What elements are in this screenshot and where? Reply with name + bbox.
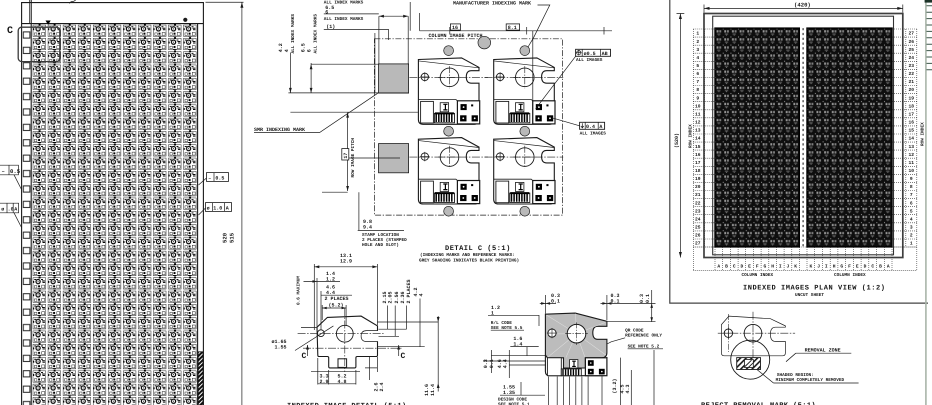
indexing circles column2 xyxy=(520,46,530,56)
svg-text:21: 21 xyxy=(695,192,701,198)
svg-text:16: 16 xyxy=(452,25,458,31)
svg-text:I: I xyxy=(779,264,782,270)
svg-text:3: 3 xyxy=(696,47,699,53)
right extension lines xyxy=(378,322,439,347)
square hole in tab xyxy=(338,359,347,368)
svg-text:8: 8 xyxy=(910,184,913,190)
dim (520) xyxy=(677,14,685,258)
svg-text:(520): (520) xyxy=(674,133,680,148)
I-box grey dev xyxy=(570,360,578,368)
svg-text:4: 4 xyxy=(910,216,913,222)
device image r2c1 xyxy=(409,138,488,204)
svg-text:11: 11 xyxy=(695,112,701,118)
inner sheet rect xyxy=(713,16,894,255)
center gap dashes xyxy=(802,28,804,247)
svg-text:0.6 MAXIMUM: 0.6 MAXIMUM xyxy=(297,276,302,305)
bottom dims xyxy=(318,357,378,385)
svg-text:9: 9 xyxy=(696,95,699,101)
small circle xyxy=(318,330,325,337)
white crease lines xyxy=(547,314,606,358)
device image r2c2 xyxy=(485,138,564,204)
svg-text:H: H xyxy=(833,264,836,270)
svg-text:7: 7 xyxy=(910,192,913,198)
svg-text:F: F xyxy=(756,264,759,270)
device outline lower part xyxy=(545,355,607,376)
svg-text:2.05: 2.05 xyxy=(387,291,393,303)
svg-text:0.1: 0.1 xyxy=(489,359,495,368)
svg-text:B: B xyxy=(725,264,728,270)
column letters right xyxy=(810,264,890,270)
detail C dash-dot border xyxy=(374,39,562,215)
svg-text:9.4: 9.4 xyxy=(363,225,372,231)
svg-text:25: 25 xyxy=(909,47,915,53)
bottom-left notch grey dev xyxy=(547,358,561,376)
svg-text:21: 21 xyxy=(909,79,915,85)
svg-text:23: 23 xyxy=(909,63,915,69)
adjacent sheet header bar xyxy=(925,0,932,3)
svg-text:24: 24 xyxy=(909,55,915,61)
svg-text:DETAIL C (5:1): DETAIL C (5:1) xyxy=(445,244,511,253)
removal centerlines xyxy=(718,332,795,334)
svg-text:4: 4 xyxy=(418,293,424,296)
adjacent sheet edge line xyxy=(925,0,927,405)
array top edge xyxy=(22,23,204,25)
svg-text:26: 26 xyxy=(909,39,915,45)
svg-text:0.5: 0.5 xyxy=(10,168,21,175)
svg-text:5: 5 xyxy=(910,208,913,214)
svg-text:16: 16 xyxy=(909,120,915,126)
removal small circle xyxy=(724,329,732,337)
svg-text:20: 20 xyxy=(909,87,915,93)
svg-text:17: 17 xyxy=(909,112,915,118)
svg-text:8: 8 xyxy=(696,87,699,93)
QR block grey dev xyxy=(585,358,607,376)
svg-text:10: 10 xyxy=(695,103,701,109)
svg-text:K: K xyxy=(794,264,797,270)
svg-text:H: H xyxy=(771,264,774,270)
dim 520/515 xyxy=(206,1,244,3)
leader diameter 1.65 xyxy=(295,326,333,351)
SMR indexing mark square 2 xyxy=(379,144,409,173)
stamp location dims xyxy=(358,192,360,230)
row index cells left xyxy=(693,29,715,247)
svg-text:22: 22 xyxy=(695,200,701,206)
svg-text:0.1: 0.1 xyxy=(645,294,651,303)
svg-text:ROW INDEX: ROW INDEX xyxy=(689,124,694,148)
row index cells right xyxy=(892,29,917,247)
svg-text:12: 12 xyxy=(695,120,701,126)
image outline drawing body xyxy=(317,316,378,368)
svg-text:A: A xyxy=(717,264,720,270)
svg-text:R/L CODE: R/L CODE xyxy=(491,320,512,326)
svg-text:2 PLACES: 2 PLACES xyxy=(325,296,349,302)
hatched shaded region xyxy=(737,358,761,370)
column index cells bottom xyxy=(693,247,917,270)
svg-text:18: 18 xyxy=(909,103,915,109)
svg-text:ROW IMAGE PITCH: ROW IMAGE PITCH xyxy=(351,138,356,178)
feature frame right side -0.5 xyxy=(199,173,229,185)
svg-text:23: 23 xyxy=(695,208,701,214)
svg-text:14: 14 xyxy=(909,136,915,142)
svg-text:19: 19 xyxy=(909,95,915,101)
svg-text:ø: ø xyxy=(207,206,210,212)
svg-text:D: D xyxy=(741,264,744,270)
svg-text:E: E xyxy=(856,264,859,270)
indexing circles column1 xyxy=(444,46,454,56)
svg-text:6: 6 xyxy=(910,200,913,206)
centerline horizontal xyxy=(298,332,384,334)
svg-text:MANUFACTURER INDEXING MARK: MANUFACTURER INDEXING MARK xyxy=(453,0,531,6)
manufacturer indexing mark circle xyxy=(478,36,491,49)
svg-text:.0: .0 xyxy=(8,207,14,213)
resist removal hatched zone on right rail xyxy=(198,352,203,405)
svg-text:J: J xyxy=(787,264,790,270)
svg-text:INDEXED IMAGES PLAN VIEW (1:2): INDEXED IMAGES PLAN VIEW (1:2) xyxy=(743,284,886,293)
svg-text:D: D xyxy=(864,264,867,270)
stamp mark top-right xyxy=(183,18,187,22)
lead-frame sheet outline xyxy=(22,3,204,405)
svg-text:C: C xyxy=(302,352,307,361)
svg-text:C: C xyxy=(7,26,13,37)
svg-text:11: 11 xyxy=(909,160,915,166)
svg-text:24: 24 xyxy=(695,216,701,222)
svg-text:16: 16 xyxy=(695,152,701,158)
feature frame left edge 0.5 xyxy=(0,165,22,189)
svg-text:INDEXED IMAGE DETAIL (5:1): INDEXED IMAGE DETAIL (5:1) xyxy=(287,402,407,405)
svg-text:4.3: 4.3 xyxy=(625,384,631,393)
right rail inner line xyxy=(197,24,199,405)
svg-text:A: A xyxy=(14,207,17,213)
small circle grey dev xyxy=(548,329,556,337)
svg-text:F: F xyxy=(848,264,851,270)
below-device extension lines xyxy=(549,377,602,405)
svg-text:(420): (420) xyxy=(794,2,811,9)
svg-text:12: 12 xyxy=(909,152,915,158)
svg-text:AB: AB xyxy=(602,51,608,57)
svg-text:G: G xyxy=(840,264,843,270)
svg-text:27: 27 xyxy=(695,241,701,247)
label 8.1 xyxy=(506,24,519,30)
svg-text:6: 6 xyxy=(307,49,313,52)
column letters left xyxy=(717,264,797,270)
svg-text:18: 18 xyxy=(695,168,701,174)
sprocket holes xyxy=(23,29,32,405)
svg-text:COLUMN INDEX: COLUMN INDEX xyxy=(834,273,866,278)
row image pitch dim xyxy=(322,31,533,192)
svg-text:E: E xyxy=(748,264,751,270)
svg-text:4.4: 4.4 xyxy=(502,359,508,368)
svg-text:11.4: 11.4 xyxy=(430,384,436,396)
outer sheet rect xyxy=(704,14,903,258)
svg-text:2 PLACES: 2 PLACES xyxy=(406,279,412,303)
svg-text:(3.2): (3.2) xyxy=(612,378,618,393)
view frame left xyxy=(670,0,928,303)
svg-text:ROW INDEX: ROW INDEX xyxy=(921,122,926,146)
svg-text:17: 17 xyxy=(343,153,349,159)
svg-text:13: 13 xyxy=(909,144,915,150)
image array xyxy=(32,24,198,405)
svg-text:15: 15 xyxy=(909,128,915,134)
svg-text:ALL INDEX MARKS: ALL INDEX MARKS xyxy=(291,14,296,54)
section line C-C xyxy=(303,347,403,349)
svg-text:4: 4 xyxy=(696,55,699,61)
svg-text:SHADED REGION:: SHADED REGION: xyxy=(777,373,814,378)
keyhole slot xyxy=(361,331,378,342)
svg-text:20: 20 xyxy=(695,184,701,190)
svg-text:2: 2 xyxy=(910,233,913,239)
extension lines grey square xyxy=(288,64,418,112)
svg-text:REJECT REMOVAL MARK (5:1): REJECT REMOVAL MARK (5:1) xyxy=(701,401,816,405)
svg-text:2: 2 xyxy=(696,39,699,45)
svg-text:C: C xyxy=(401,352,406,361)
removal mid circle xyxy=(744,324,762,342)
svg-text:22: 22 xyxy=(909,71,915,77)
svg-text:4: 4 xyxy=(284,49,290,52)
row numbers right xyxy=(909,31,915,247)
column pitch dim line xyxy=(420,27,612,35)
cut mark top xyxy=(70,0,77,4)
dim 6.5/6 over mark xyxy=(379,15,408,17)
svg-text:1.0: 1.0 xyxy=(213,206,222,212)
big circle grey dev xyxy=(567,324,586,343)
svg-text:J: J xyxy=(817,264,820,270)
svg-text:REMOVAL ZONE: REMOVAL ZONE xyxy=(805,348,841,354)
callout 0.4 A xyxy=(552,118,606,137)
svg-text:25: 25 xyxy=(695,225,701,231)
svg-text:ALL INDEX MARKS: ALL INDEX MARKS xyxy=(314,14,319,54)
svg-text:MINIMUM COMPLETELY REMOVED: MINIMUM COMPLETELY REMOVED xyxy=(776,378,845,383)
big circle xyxy=(336,325,353,342)
feature frame right side 1.0 A xyxy=(199,203,232,215)
removal zone circle xyxy=(731,340,770,379)
svg-text:I: I xyxy=(825,264,828,270)
svg-text:0.4: 0.4 xyxy=(586,124,595,130)
stamp mark top-left xyxy=(46,21,51,25)
svg-text:2.4: 2.4 xyxy=(379,382,385,391)
left extension lines xyxy=(483,350,546,378)
device image r1c2 xyxy=(485,58,564,124)
svg-text:6: 6 xyxy=(696,71,699,77)
svg-text:1.55: 1.55 xyxy=(275,344,287,350)
svg-text:ALL INDEX MARKS: ALL INDEX MARKS xyxy=(324,17,364,22)
svg-text:1: 1 xyxy=(910,241,913,247)
svg-text:A: A xyxy=(887,264,890,270)
detail C callout box xyxy=(18,27,60,61)
svg-text:8.1: 8.1 xyxy=(508,25,517,31)
connector grey dev xyxy=(561,369,581,376)
svg-text:HOLE AND SLOT): HOLE AND SLOT) xyxy=(362,242,399,248)
svg-text:5: 5 xyxy=(696,63,699,69)
svg-text:(INDEXING MARKS AND REFERENCE: (INDEXING MARKS AND REFERENCE MARKS: xyxy=(420,252,515,258)
svg-text:K: K xyxy=(810,264,813,270)
svg-text:6: 6 xyxy=(325,9,328,15)
left image block xyxy=(715,28,799,247)
svg-text:14: 14 xyxy=(695,136,701,142)
svg-text:COLUMN IMAGE PITCH: COLUMN IMAGE PITCH xyxy=(429,33,483,39)
label 16 xyxy=(450,24,460,30)
svg-text:3: 3 xyxy=(910,225,913,231)
svg-text:19: 19 xyxy=(695,176,701,182)
svg-text:COLUMN INDEX: COLUMN INDEX xyxy=(742,273,774,278)
svg-text:17: 17 xyxy=(695,160,701,166)
svg-text:0.5: 0.5 xyxy=(215,176,224,182)
svg-text:ALL IMAGES: ALL IMAGES xyxy=(576,58,603,63)
grey printed device body xyxy=(545,313,607,368)
row numbers left xyxy=(695,31,701,247)
svg-text:2.36: 2.36 xyxy=(400,291,406,303)
svg-text:ø: ø xyxy=(1,207,4,213)
svg-text:13: 13 xyxy=(695,128,701,134)
svg-text:–: – xyxy=(2,168,5,175)
device image r1c1 xyxy=(409,58,488,124)
svg-text:515: 515 xyxy=(229,232,236,243)
SMR indexing mark square 1 xyxy=(379,64,409,93)
svg-text:520: 520 xyxy=(222,232,229,243)
svg-text:ø0.5: ø0.5 xyxy=(584,51,596,57)
adjacent sheet row lines xyxy=(927,6,932,70)
callout 0.5 AB xyxy=(536,49,611,109)
svg-text:27: 27 xyxy=(909,31,915,37)
svg-text:7: 7 xyxy=(696,79,699,85)
svg-text:B: B xyxy=(879,264,882,270)
svg-text:UNCUT SHEET: UNCUT SHEET xyxy=(795,293,824,298)
dim 11.6/11.4 tall right xyxy=(437,316,439,391)
svg-text:9: 9 xyxy=(910,176,913,182)
centerline vertical xyxy=(344,308,346,372)
svg-text:A: A xyxy=(599,124,602,130)
svg-text:26: 26 xyxy=(695,233,701,239)
svg-text:ALL IMAGES: ALL IMAGES xyxy=(580,131,607,136)
svg-text:REFERENCE ONLY: REFERENCE ONLY xyxy=(625,334,662,339)
svg-text:G: G xyxy=(764,264,767,270)
svg-text:1: 1 xyxy=(696,31,699,37)
right image block xyxy=(807,28,892,247)
left rail inner line xyxy=(30,0,32,405)
svg-text:10: 10 xyxy=(909,168,915,174)
dim arrows 4.2 xyxy=(289,53,291,93)
svg-text:12.9: 12.9 xyxy=(340,258,352,264)
rail line duplicate top xyxy=(29,0,31,24)
svg-text:A: A xyxy=(226,206,229,212)
svg-text:GREY SHADING INDICATES BLACK P: GREY SHADING INDICATES BLACK PRINTING) xyxy=(419,257,519,263)
svg-text:15: 15 xyxy=(695,144,701,150)
feature frame left edge 1.0 A xyxy=(0,203,22,227)
removal mark device outline xyxy=(721,316,785,356)
svg-text:C: C xyxy=(733,264,736,270)
label 17 boxed rotated xyxy=(342,149,349,160)
svg-text:–: – xyxy=(208,176,211,182)
svg-text:C: C xyxy=(871,264,874,270)
